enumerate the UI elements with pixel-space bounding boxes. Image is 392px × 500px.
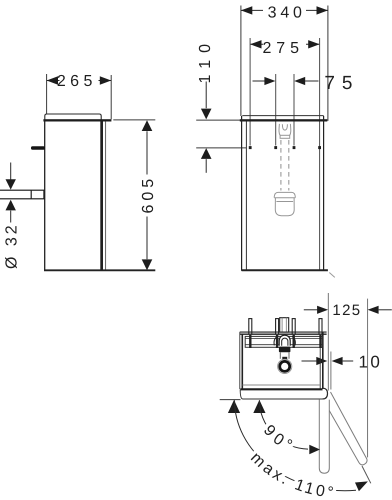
svg-text:125: 125 (332, 302, 361, 319)
dim 125 right arrow pointing left (368, 306, 379, 314)
faucet body dome inner (282, 338, 288, 346)
dim diameter 32 upper line (10, 163, 12, 184)
dim 340 label (263, 3, 306, 18)
svg-text:10: 10 (359, 352, 383, 371)
dim 10 right arrow pointing left (332, 357, 343, 365)
cabinet bottom line (44, 269, 155, 271)
front band top thick (241, 388, 323, 390)
fixing bolt heads (249, 146, 252, 149)
bolt extension line 75-left (275, 74, 277, 146)
dim 605 top arrow (142, 120, 153, 131)
drain outer faint ring (278, 359, 292, 373)
arc start arrow inner (90) (253, 400, 265, 413)
corner tick bottom right (329, 273, 335, 278)
siphon trap outline (274, 192, 295, 215)
svg-text:110: 110 (197, 37, 214, 84)
dim 265 extension line left (46, 74, 48, 116)
basin inner front line (243, 384, 321, 386)
faucet wing left (274, 337, 277, 346)
cabinet front outer thin line (105, 121, 107, 270)
dim 110 down arrow (201, 109, 212, 120)
cabinet left outer edge (239, 332, 241, 389)
dim 110 extension line bottom (196, 147, 246, 149)
basin thin top line (242, 115, 323, 117)
dim 340 extension right (327, 6, 329, 121)
605 top extension line (113, 119, 155, 121)
dim 125 left arrow pointing right (317, 306, 328, 314)
dim 265 left arrow (47, 76, 58, 84)
dim 10 left tail (302, 360, 317, 362)
door open max110 (diagonal strip) (323, 392, 367, 465)
dim 75 left tail (253, 80, 265, 82)
door open 90 (vertical strip) (319, 400, 329, 474)
dim 110 up arrow (201, 148, 212, 159)
dim 110 leader line (205, 82, 207, 109)
fixing tab (31, 146, 45, 150)
dim 340 left arrow (241, 6, 252, 14)
svg-text:340: 340 (268, 4, 306, 21)
dim 265 extension line right (110, 75, 112, 119)
basin rim thick line (43, 119, 111, 121)
dim 32 lower tail (10, 211, 12, 223)
cabinet left edge (44, 121, 46, 271)
dim 125 extension line far (367, 299, 369, 458)
faucet body dome outer (279, 335, 290, 346)
front extension line (220, 399, 241, 401)
dim 125 right tail (379, 309, 392, 311)
dim 32 down arrow (6, 179, 16, 189)
drain pipe (0, 190, 44, 199)
swing arc 90 (259, 400, 308, 449)
mounting bolts (4 posts) (249, 319, 252, 335)
faucet tap outline (279, 124, 291, 138)
dim 32 up arrow (6, 200, 16, 211)
front band bottom thin (243, 398, 323, 400)
faucet nut (279, 347, 291, 353)
dim 10 right tail (343, 360, 354, 362)
dim 605 line lower segment (146, 217, 148, 260)
dim 275 left arrow (250, 40, 261, 48)
svg-text:275: 275 (262, 40, 303, 57)
dim 275 label (263, 37, 306, 52)
cabinet right inner edge (319, 334, 321, 389)
dim 10 left arrow pointing right (316, 357, 327, 365)
pipe coupling joint (30, 190, 32, 199)
cabinet top edge outer (240, 331, 327, 333)
bolt extension line 275-right (319, 38, 321, 270)
cabinet left inner line (245, 121, 247, 269)
dim 275 right arrow (308, 40, 319, 48)
faucet wing right (292, 337, 295, 346)
faucet shank (280, 318, 289, 332)
dim 125 extension line near (327, 293, 329, 391)
dim 340 extension left (240, 6, 242, 117)
swing arc max110 (235, 400, 357, 490)
basin rim thick line (240, 119, 327, 121)
dim 275 line (250, 43, 320, 45)
door edge extension diagonal (362, 466, 371, 483)
front band right rounded corner (323, 388, 328, 399)
dim 10 extension line right (330, 352, 332, 390)
cabinet left inner edge (241, 334, 243, 389)
arc max110 arrowhead (355, 481, 368, 491)
dim 340 line (241, 9, 328, 11)
faucet tube to drain (279, 352, 281, 359)
cabinet right outer edge (322, 332, 324, 389)
dim 265 dimension line (47, 80, 112, 82)
cabinet top edge inner (240, 333, 327, 335)
dim 605 line upper segment (146, 131, 148, 174)
dim 125 left tail (304, 309, 318, 311)
dim 75 left arrow pointing right (264, 77, 275, 85)
svg-text:Ø 32: Ø 32 (4, 222, 21, 269)
arc start arrow outer (max110) (228, 400, 240, 413)
cabinet front panel thick band (100, 121, 103, 271)
faucet dashed supply lines (280, 140, 282, 191)
bolt extension line 275-left (249, 38, 251, 146)
dim 265 right arrow (100, 76, 111, 84)
dim 265 label (60, 73, 99, 88)
svg-text:75: 75 (324, 73, 359, 94)
cabinet left outer edge (241, 116, 243, 271)
cabinet bottom line (242, 269, 328, 271)
svg-text:265: 265 (57, 73, 97, 90)
dim 75 right tail (305, 80, 319, 82)
dim 110 lower tail (205, 159, 207, 173)
drain ring (280, 361, 290, 371)
svg-text:605: 605 (140, 175, 157, 214)
washbasin slab (side) (45, 114, 101, 121)
arc 90 arrowhead (309, 445, 320, 455)
bolt bodies crossing rail (249, 335, 251, 348)
bolt extension line 75-right (293, 74, 295, 146)
dim 110 extension line top (196, 119, 242, 121)
dim 605 bottom arrow (142, 259, 153, 270)
mounting rail (245, 336, 322, 347)
dim 75 right arrow pointing left (294, 77, 305, 85)
cabinet right outer edge (323, 116, 325, 271)
dim 340 right arrow (317, 6, 328, 14)
front band left corner (240, 389, 243, 399)
